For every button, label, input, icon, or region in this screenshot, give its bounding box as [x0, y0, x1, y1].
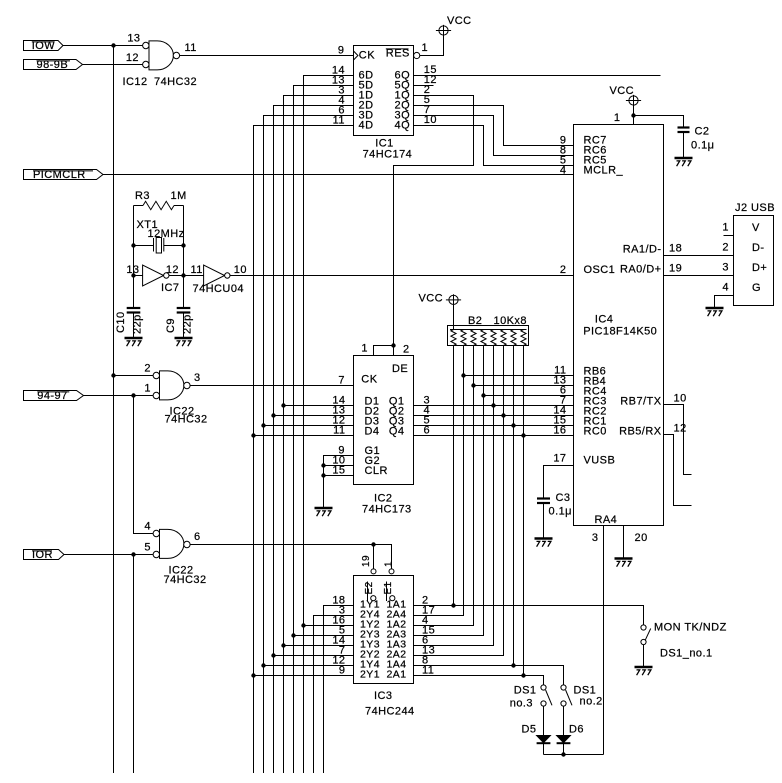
svg-text:15: 15: [332, 465, 345, 477]
ground below IC4 pin 20: [615, 557, 633, 560]
svg-text:J2 USB: J2 USB: [735, 202, 775, 214]
wire B2 r2 down to IC3 2A4 pin 17: [414, 346, 464, 616]
IC3 E2 pin 19 bubble and rotated label: [371, 569, 376, 574]
wire IC3 1Y3 pin 14 from bus: [284, 645, 354, 647]
IC2 pin 1 and pin 2 top stubs with junction: [374, 346, 394, 356]
wire IC2 G1 G2 CLR to ground: [324, 456, 354, 508]
wire IC3 1A1 pin 2 to MON switch: [414, 606, 644, 625]
svg-text:18: 18: [669, 243, 682, 255]
register IC2 74HC173 body: [354, 356, 414, 485]
wire inverter IC7A output to right node: [169, 275, 184, 277]
wire IC1 4Q pin 10 to IC4 RC5: [414, 126, 574, 166]
wire IC22B output pin 6 to IC3 enables: [190, 545, 391, 569]
svg-text:VCC: VCC: [610, 85, 635, 97]
svg-text:C3: C3: [556, 492, 571, 504]
wire IC3 2Y3 pin 5 from bus: [294, 635, 354, 637]
svg-text:22p: 22p: [181, 314, 193, 334]
svg-text:RA0/D+: RA0/D+: [620, 263, 662, 275]
switch DS1 no.2: [561, 685, 566, 690]
svg-text:3: 3: [592, 532, 599, 544]
svg-text:4Q: 4Q: [395, 119, 411, 131]
svg-text:19: 19: [669, 263, 682, 275]
wire IC3 1Y1 pin 18 down page: [324, 606, 354, 774]
svg-text:IC12: IC12: [123, 76, 148, 88]
or-gate IC22 74HC32 pins 2,1,3: [160, 371, 184, 400]
input flag 94-97: [24, 391, 84, 401]
wire IC1 2D pin 4 to bus: [274, 106, 354, 774]
wire IC4 pin 20 to ground: [623, 526, 625, 559]
svg-text:6: 6: [194, 531, 201, 543]
svg-text:4D: 4D: [359, 119, 374, 131]
wire IC1 3D pin 6 to bus: [264, 116, 354, 774]
wire IC2 D1 pin 14 from bus: [284, 405, 354, 407]
wire IC3 1A4 pin 8 to DS1 no.2: [414, 666, 564, 685]
wire B2 r6 down to IC3 2A2 pin 13: [414, 346, 504, 656]
connector J2 USB body: [734, 216, 774, 306]
wire crystal left node vertical: [133, 206, 135, 309]
svg-text:1: 1: [614, 112, 621, 124]
wire IOR vertical down page: [133, 555, 135, 774]
svg-text:4: 4: [560, 164, 567, 176]
svg-text:C2: C2: [695, 126, 710, 138]
svg-text:CK: CK: [361, 374, 377, 386]
svg-text:no.3: no.3: [510, 698, 533, 710]
wire crystal right node vertical: [183, 206, 185, 309]
svg-text:DS1: DS1: [514, 685, 537, 697]
wire IC1 4D pin 11 to bus: [254, 126, 354, 774]
wire IC4 RB5/RX pin 12 stub: [664, 435, 692, 506]
svg-text:11: 11: [333, 115, 345, 127]
wire IC2 D3 pin 12 from bus: [264, 425, 354, 427]
wire DS1 no.2 to D6: [563, 706, 565, 735]
svg-text:RB5/RX: RB5/RX: [619, 425, 662, 437]
wire IC2 D2 pin 13 from bus: [274, 415, 354, 417]
node junction IOR / vertical wire: [131, 552, 135, 556]
node inverter output right: [181, 273, 185, 277]
svg-text:C10: C10: [115, 311, 127, 333]
svg-text:D4: D4: [365, 425, 380, 437]
wire IC2 Q1 pin 3 to IC4 RC3: [414, 405, 574, 407]
wire VCC node to C2: [634, 116, 684, 128]
node junction pin2 / B2 r1: [451, 603, 455, 607]
or-gate IC22 74HC32 pins 4,5,6: [160, 529, 184, 558]
wire IC1 6Q pin 15 stub right: [414, 75, 661, 77]
svg-text:E2: E2: [364, 581, 375, 594]
svg-text:74HC174: 74HC174: [363, 149, 413, 161]
power symbol VCC at IC4: [629, 96, 638, 105]
svg-text:7: 7: [338, 375, 345, 387]
svg-text:OSC1: OSC1: [584, 264, 616, 276]
svg-text:D5: D5: [522, 724, 537, 736]
wire inverter IC7B input: [184, 275, 204, 277]
buffer IC3 74HC244 body: [354, 576, 414, 684]
ground below IC2 G pins: [315, 507, 333, 510]
wire B2 r7 down to node RC1 and IC3 1A4 pin 8: [513, 346, 515, 666]
svg-text:D-: D-: [752, 242, 765, 254]
wire B2 r8 down to node RC0 and IC3 2A1 pin 11: [523, 346, 525, 676]
wire IC3 1Y2 pin 16 from bus: [304, 625, 354, 627]
power symbol VCC at IC1 RES: [439, 26, 448, 35]
wire IC22A output pin 3 to IC2 CK pin 7: [190, 385, 353, 387]
capacitor C9 22p: [177, 307, 191, 309]
wire IC1 RES pin 1 to VCC: [420, 35, 444, 55]
svg-text:R3: R3: [135, 190, 150, 202]
svg-text:C9: C9: [165, 318, 177, 333]
input flag 98-9B: [24, 60, 83, 70]
svg-text:4: 4: [722, 282, 729, 294]
svg-text:1: 1: [384, 561, 395, 567]
node inverter input left: [131, 273, 135, 277]
wire DS1_no.1 to ground: [643, 645, 645, 667]
inverter IC7B pins 11,10: [204, 265, 225, 286]
svg-text:3: 3: [194, 372, 201, 384]
wire crystal left to inverter IC7A input: [134, 275, 143, 277]
svg-text:B2: B2: [468, 315, 482, 327]
svg-text:74HC32: 74HC32: [154, 76, 197, 88]
svg-text:74HC32: 74HC32: [165, 414, 208, 426]
wire inverter IC7B output pin 10 to IC4 OSC1 pin 2: [230, 275, 574, 277]
wire IC3 2Y2 pin 7 from bus: [274, 655, 354, 657]
capacitor C2 0.1u: [678, 126, 690, 128]
node B2/RC2: [501, 413, 505, 417]
svg-text:74HCU04: 74HCU04: [193, 283, 244, 295]
svg-text:9: 9: [339, 665, 346, 677]
svg-text:19: 19: [361, 555, 372, 567]
svg-text:10: 10: [234, 264, 247, 276]
svg-text:11: 11: [185, 42, 197, 54]
input flag IOW: [24, 41, 64, 51]
ground below DS1_no.1: [635, 666, 653, 669]
svg-text:Q4: Q4: [389, 425, 405, 437]
IC1 clock wedge and CK label: [354, 51, 358, 60]
svg-text:2A1: 2A1: [386, 668, 406, 680]
svg-text:RC0: RC0: [584, 425, 607, 437]
wire IC1 2Q pin 5 to IC4 RC7: [414, 106, 574, 146]
wire node to IC4 RB6 pin 11: [464, 375, 574, 377]
wire IC12 output pin 11 to IC1 CK pin 9: [180, 55, 354, 57]
svg-text:11: 11: [422, 665, 434, 677]
ground below C9: [175, 337, 193, 340]
or-gate IC12 74HC32 pins 13,12,11: [149, 41, 173, 70]
wire diode common to RA4 net: [544, 754, 604, 756]
svg-text:IC3: IC3: [374, 690, 392, 702]
svg-text:5: 5: [144, 542, 151, 554]
ground below C3: [535, 537, 553, 540]
node B2/RB4: [471, 383, 475, 387]
IC3 E1 pin 1 bubble and rotated label: [389, 569, 394, 574]
svg-text:1M: 1M: [171, 190, 187, 202]
svg-text:RA1/D-: RA1/D-: [623, 243, 662, 255]
svg-text:2: 2: [144, 363, 151, 375]
svg-text:2Y1: 2Y1: [360, 668, 380, 680]
wire node to IC4 RB4 pin 13: [474, 385, 574, 387]
wire IC1 5D pin 13 to bus: [294, 86, 354, 774]
wire IC4 RA1/D- pin 18 to J2 pin 2: [664, 255, 734, 257]
capacitor C10 22p: [133, 276, 135, 309]
svg-text:74HC173: 74HC173: [362, 504, 412, 516]
svg-text:D+: D+: [752, 262, 767, 274]
wire PICMCLR to IC4 MCLR_ pin 4: [103, 174, 574, 176]
ground below C2: [675, 157, 693, 160]
svg-text:V: V: [752, 222, 760, 234]
J2 pin 1 V: [724, 235, 734, 237]
svg-text:74HC244: 74HC244: [365, 706, 415, 718]
wire VCC to B2 common: [453, 305, 455, 330]
svg-text:1: 1: [722, 222, 729, 234]
svg-text:CK: CK: [359, 50, 375, 62]
svg-text:4: 4: [144, 521, 151, 533]
node junction pin8 / B2 r7: [511, 663, 515, 667]
svg-text:20: 20: [635, 532, 648, 544]
wire IC22 pin 2 from IOW bus: [114, 375, 154, 377]
node crystal right: [181, 243, 185, 247]
svg-text:DS1_no.1: DS1_no.1: [660, 648, 713, 660]
node junction IC3 E2 pin 19: [371, 542, 375, 546]
svg-text:2: 2: [403, 344, 410, 356]
svg-text:IC7: IC7: [161, 282, 179, 294]
power symbol VCC at B2: [449, 295, 458, 304]
svg-text:E1: E1: [383, 581, 394, 594]
wire DS1 no.3 to D5: [543, 706, 545, 735]
wire IOW flag to IC12 pin 13: [63, 45, 142, 47]
wire IC1 6D pin 14 to bus: [304, 76, 354, 774]
wire IC1 5Q pin 12 stub: [414, 85, 434, 87]
resistor network B2 10Kx8: [448, 326, 529, 346]
wire 94-97 vertical down to IC22 pin 4: [134, 396, 153, 534]
ground below J2 pin 4: [706, 307, 724, 310]
wire IC1 3Q pin 7 to IC4 RC6: [414, 116, 574, 156]
svg-text:2: 2: [560, 264, 567, 276]
svg-text:1: 1: [361, 343, 368, 355]
wire IC4 RA4 pin 3 down to diodes: [603, 526, 605, 755]
input flag PICMCLR: [24, 170, 104, 180]
svg-text:74HC32: 74HC32: [164, 574, 207, 586]
node junction pin11 / B2 r8: [521, 673, 525, 677]
svg-text:MCLR_: MCLR_: [584, 164, 624, 176]
latch IC1 74HC174 body: [354, 46, 414, 136]
switch DS1 no.3: [541, 685, 546, 690]
svg-text:6: 6: [424, 425, 431, 437]
wire IC3 1Y4 pin 12 from bus: [264, 665, 354, 667]
svg-text:PIC18F14K50: PIC18F14K50: [583, 326, 657, 338]
svg-text:11: 11: [191, 264, 203, 276]
svg-text:IC4: IC4: [595, 314, 613, 326]
svg-text:MON TK/NDZ: MON TK/NDZ: [654, 622, 727, 634]
node crystal left: [131, 243, 135, 247]
svg-text:DE: DE: [392, 363, 408, 375]
wire B2 r5 down to IC3 1A3 pin 6: [414, 346, 494, 646]
svg-text:VCC: VCC: [447, 15, 472, 27]
svg-text:16: 16: [553, 425, 566, 437]
svg-text:RA4: RA4: [595, 514, 618, 526]
svg-text:12: 12: [674, 423, 687, 435]
svg-text:10: 10: [674, 393, 687, 405]
svg-text:VCC: VCC: [419, 293, 444, 305]
svg-text:22p: 22p: [131, 314, 143, 334]
wire IC4 RA0/D+ pin 19 to J2 pin 3: [664, 275, 734, 277]
wire IOR to IC22 pin 5: [64, 554, 153, 556]
svg-text:1: 1: [144, 383, 151, 395]
svg-text:no.2: no.2: [580, 696, 603, 708]
wire IC2 Q3 pin 5 to IC4 RC1: [414, 425, 574, 427]
wire B2 r1 down to DS1_no.1 net: [453, 346, 455, 606]
svg-text:2: 2: [722, 242, 729, 254]
svg-text:D6: D6: [569, 724, 584, 736]
node B2/RC0: [521, 433, 525, 437]
node junction D6 / common: [561, 752, 565, 756]
node B2/RB6: [461, 373, 465, 377]
wire B2 r4 down to IC3 2A3 pin 15: [414, 346, 484, 636]
svg-text:1: 1: [422, 42, 429, 54]
svg-text:RB7/TX: RB7/TX: [620, 395, 661, 407]
svg-text:13: 13: [127, 33, 140, 45]
wire IC3 2A1 pin 11 to DS1 no.3: [414, 676, 544, 685]
svg-text:9: 9: [338, 45, 345, 57]
node junction IOW bus / IC22 pin 2: [111, 373, 115, 377]
switch DS1_no.1 MON TK/NDZ: [641, 625, 646, 630]
wire IC4 RB7/TX pin 10 stub: [664, 405, 692, 475]
wire IC2 Q2 pin 4 to IC4 RC2: [414, 415, 574, 417]
wire B2 r3 down to IC3 1A2 pin 4: [414, 346, 474, 626]
wire node to IC4 RC4 pin 6: [484, 395, 574, 397]
wire IC3 2Y1 pin 9 from bus: [254, 675, 354, 677]
svg-text:12: 12: [126, 52, 139, 64]
wire IC1 1Q pin 2 to IC2 DE: [394, 96, 474, 346]
wire IC3 pin 19 stub: [373, 545, 375, 569]
node B2/RC1: [511, 423, 515, 427]
wire 98-9B to IC12 pin 12: [83, 64, 143, 66]
ground below C10: [125, 337, 143, 340]
svg-text:G: G: [752, 282, 761, 294]
wire IC2 Q4 pin 6 to IC4 RC0: [414, 435, 574, 437]
svg-text:12: 12: [166, 264, 179, 276]
svg-text:0.1μ: 0.1μ: [691, 140, 714, 152]
svg-text:CLR: CLR: [365, 465, 388, 477]
svg-text:17: 17: [553, 453, 566, 465]
svg-text:11: 11: [333, 425, 345, 437]
node VCC / C2 branch: [631, 113, 635, 117]
J2 pin 4 G to ground: [715, 296, 734, 308]
wire IC2 D4 pin 11 from bus: [254, 435, 354, 437]
wire IC3 2Y4 pin 3 down page: [314, 616, 354, 774]
node junction IOW / vertical bus: [111, 43, 115, 47]
inverter IC7A pins 13,12: [143, 265, 164, 286]
wire IC4 VUSB pin 17 to C3: [544, 466, 574, 498]
node B2/RC3: [491, 403, 495, 407]
svg-text:3: 3: [722, 262, 729, 274]
node junction 94-97 / vertical wire: [131, 393, 135, 397]
microcontroller IC4 PIC18F14K50 body: [574, 125, 664, 526]
wire IOW vertical bus down page: [113, 46, 115, 774]
IC4 pin 1 VCC wire: [633, 105, 635, 124]
svg-text:VUSB: VUSB: [584, 454, 616, 466]
node B2/RC4: [481, 393, 485, 397]
capacitor C3 0.1u: [537, 497, 550, 499]
input flag IOR: [24, 550, 65, 560]
wire IC1 1D pin 3 to bus: [284, 96, 354, 774]
wire 94-97 to IC22 pin 1: [84, 395, 153, 397]
svg-text:0.1μ: 0.1μ: [549, 506, 572, 518]
svg-text:10Kx8: 10Kx8: [494, 315, 527, 327]
resistor R3 1M: [134, 205, 144, 207]
